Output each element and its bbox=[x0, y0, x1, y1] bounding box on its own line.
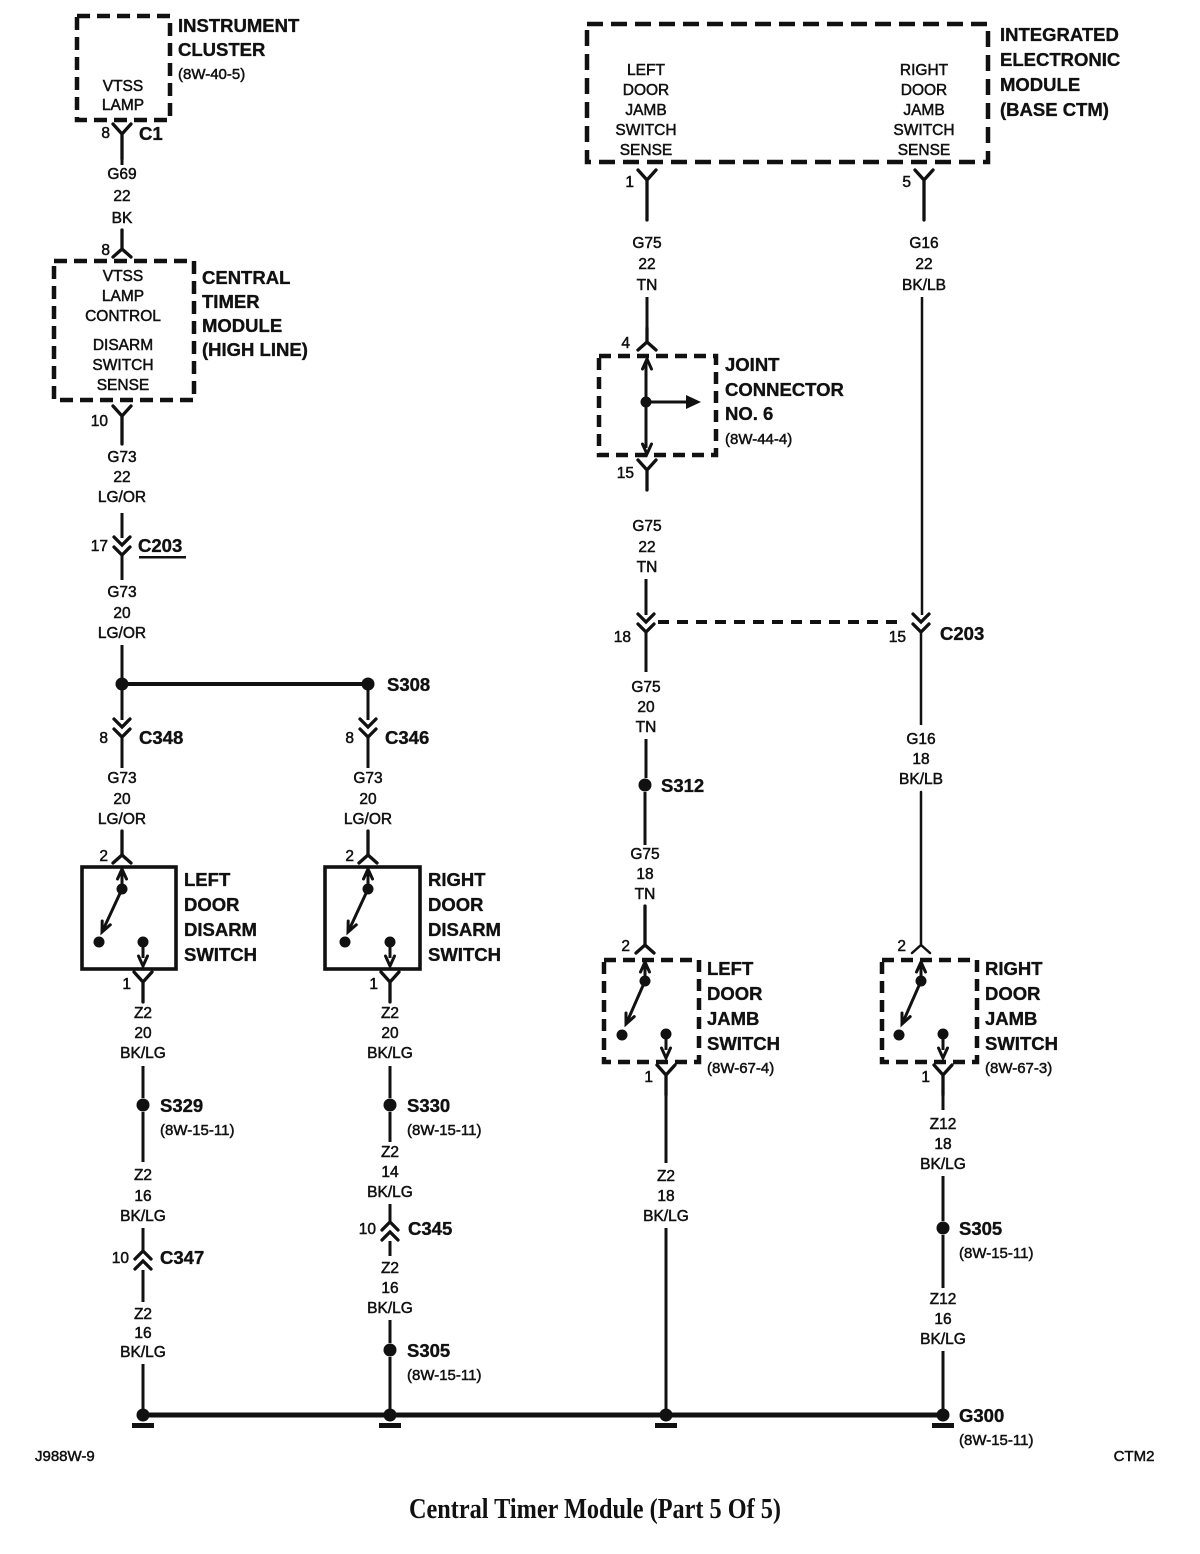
right disarm switch: left contact bbox=[340, 937, 351, 948]
ground junction (left) bbox=[132, 1409, 154, 1429]
pin 17 at C203 bbox=[91, 538, 108, 555]
svg-text:G73: G73 bbox=[353, 770, 382, 787]
wire above C345 bbox=[389, 1204, 392, 1221]
wire above splice junction bbox=[121, 645, 124, 680]
svg-text:22: 22 bbox=[638, 256, 655, 273]
svg-text:RIGHT: RIGHT bbox=[985, 958, 1043, 979]
svg-text:LEFT: LEFT bbox=[184, 869, 231, 890]
label G75 18 TN bbox=[630, 846, 659, 903]
label INSTRUMENT CLUSTER (8W-40-5) bbox=[178, 15, 300, 83]
label LEFT DOOR JAMB SWITCH (8W-67-4) bbox=[707, 958, 780, 1077]
svg-text:SWITCH: SWITCH bbox=[707, 1033, 780, 1054]
dashed link between C203 halves bbox=[658, 620, 902, 624]
label G75 22 TN (upper) bbox=[632, 235, 661, 294]
wire + male half into left disarm switch bbox=[113, 831, 131, 863]
svg-text:SWITCH: SWITCH bbox=[615, 122, 676, 139]
label G75 22 TN (lower) bbox=[632, 518, 661, 576]
label Z2 20 BK/LG (left) bbox=[120, 1005, 166, 1062]
svg-text:BK/LG: BK/LG bbox=[643, 1208, 689, 1225]
pin 1 (left door jamb switch) bbox=[644, 1069, 653, 1086]
ground G300 bbox=[932, 1405, 1033, 1449]
connector at left disarm switch pin 1 bbox=[134, 972, 152, 1002]
instrument cluster box bbox=[77, 16, 170, 120]
left disarm switch: left contact bbox=[94, 937, 105, 948]
wire to ground bus (jamb left) bbox=[665, 1228, 668, 1412]
label Z2 16 BK/LG (left lower) bbox=[120, 1306, 166, 1361]
svg-text:(8W-15-11): (8W-15-11) bbox=[959, 1432, 1033, 1449]
svg-text:G75: G75 bbox=[632, 518, 661, 535]
svg-text:Z2: Z2 bbox=[381, 1005, 399, 1022]
svg-text:20: 20 bbox=[113, 791, 131, 808]
wire below left jamb switch bbox=[665, 1076, 668, 1163]
svg-text:BK/LG: BK/LG bbox=[120, 1344, 166, 1361]
svg-text:Z12: Z12 bbox=[930, 1116, 957, 1133]
svg-text:CONTROL: CONTROL bbox=[85, 308, 161, 325]
svg-text:INSTRUMENT: INSTRUMENT bbox=[178, 15, 300, 36]
svg-text:Z2: Z2 bbox=[134, 1306, 152, 1323]
svg-text:Z2: Z2 bbox=[381, 1144, 399, 1161]
pin 10 at C345 bbox=[359, 1221, 377, 1238]
label LEFT DOOR DISARM SWITCH bbox=[184, 869, 257, 965]
right jamb switch: output contact bbox=[938, 1029, 949, 1040]
wire down to C203 pin 15 bbox=[921, 297, 924, 615]
label Z2 16 BK/LG (left upper) bbox=[120, 1167, 166, 1225]
label Z2 14 BK/LG bbox=[367, 1144, 413, 1201]
svg-text:VTSS: VTSS bbox=[103, 268, 143, 285]
svg-text:INTEGRATED: INTEGRATED bbox=[1000, 24, 1119, 45]
svg-text:DOOR: DOOR bbox=[901, 82, 948, 99]
joint connector: junction dot bbox=[641, 397, 652, 408]
connector at CTM pin 10 bbox=[113, 406, 131, 444]
svg-text:TN: TN bbox=[637, 277, 658, 294]
integrated electronic module box bbox=[587, 24, 988, 162]
connector at right jamb switch pin 1 bbox=[934, 1065, 952, 1095]
svg-text:MODULE: MODULE bbox=[1000, 74, 1080, 95]
wire below S312 bbox=[644, 792, 647, 845]
right disarm switch: output arrow bbox=[386, 942, 395, 966]
left jamb switch: left contact bbox=[617, 1030, 628, 1041]
svg-text:15: 15 bbox=[889, 629, 906, 646]
svg-text:CTM2: CTM2 bbox=[1114, 1448, 1155, 1465]
connector at right disarm switch pin 1 bbox=[381, 972, 399, 1002]
svg-text:S312: S312 bbox=[661, 775, 704, 796]
svg-text:TIMER: TIMER bbox=[202, 291, 260, 312]
svg-text:14: 14 bbox=[381, 1164, 399, 1181]
splice S312 bbox=[639, 775, 705, 796]
wire to S308 bbox=[122, 682, 368, 686]
svg-text:(8W-15-11): (8W-15-11) bbox=[407, 1122, 481, 1139]
left jamb switch: blade bbox=[626, 981, 645, 1024]
pin 8 (instrument cluster) bbox=[101, 125, 110, 142]
label G73 20 LG/OR (left lower) bbox=[98, 770, 146, 828]
svg-text:S329: S329 bbox=[160, 1095, 203, 1116]
wire below S330 bbox=[389, 1112, 392, 1142]
label JOINT CONNECTOR NO. 6 (8W-44-4) bbox=[725, 354, 844, 448]
svg-text:BK/LB: BK/LB bbox=[899, 771, 943, 788]
svg-text:C347: C347 bbox=[160, 1247, 204, 1268]
pin 8 at C348 bbox=[99, 730, 108, 747]
pin 4 at joint connector bbox=[621, 335, 630, 352]
label INTEGRATED ELECTRONIC MODULE (BASE CTM) bbox=[1000, 24, 1120, 120]
svg-text:5: 5 bbox=[902, 174, 911, 191]
svg-text:15: 15 bbox=[617, 465, 634, 482]
pin 8 at C346 bbox=[345, 730, 354, 747]
svg-text:(8W-40-5): (8W-40-5) bbox=[178, 66, 245, 83]
svg-text:20: 20 bbox=[113, 605, 131, 622]
label G73 20 LG/OR (right) bbox=[344, 770, 392, 828]
svg-text:BK: BK bbox=[112, 210, 133, 227]
svg-text:MODULE: MODULE bbox=[202, 315, 282, 336]
svg-text:JAMB: JAMB bbox=[707, 1008, 759, 1029]
svg-text:LEFT: LEFT bbox=[707, 958, 754, 979]
svg-text:JAMB: JAMB bbox=[903, 102, 944, 119]
svg-text:2: 2 bbox=[621, 938, 630, 955]
right jamb switch: output arrow bbox=[939, 1034, 948, 1058]
svg-text:G75: G75 bbox=[632, 235, 661, 252]
wire S308 to C346 bbox=[367, 688, 370, 720]
svg-text:DISARM: DISARM bbox=[428, 919, 501, 940]
svg-text:C348: C348 bbox=[139, 727, 183, 748]
svg-text:SWITCH: SWITCH bbox=[428, 944, 501, 965]
wire below C346 bbox=[367, 737, 370, 768]
pin 5 (IEM right) bbox=[902, 174, 911, 191]
svg-text:18: 18 bbox=[636, 866, 653, 883]
svg-text:DOOR: DOOR bbox=[707, 983, 763, 1004]
wire below C347 bbox=[142, 1270, 145, 1302]
left disarm switch: output arrow bbox=[139, 942, 148, 966]
svg-text:G73: G73 bbox=[107, 449, 136, 466]
svg-text:S305: S305 bbox=[959, 1218, 1002, 1239]
svg-text:LG/OR: LG/OR bbox=[344, 811, 392, 828]
right jamb switch: pivot contact bbox=[916, 976, 927, 987]
svg-text:LEFT: LEFT bbox=[627, 62, 665, 79]
svg-text:BK/LG: BK/LG bbox=[367, 1184, 413, 1201]
svg-text:DISARM: DISARM bbox=[93, 337, 153, 354]
wire above C203 pin 18 bbox=[645, 579, 648, 615]
svg-text:J988W-9: J988W-9 bbox=[35, 1448, 95, 1465]
connector C203 (left) bbox=[114, 535, 186, 559]
svg-text:RIGHT: RIGHT bbox=[900, 62, 949, 79]
svg-text:1: 1 bbox=[644, 1069, 653, 1086]
label RIGHT DOOR JAMB SWITCH SENSE (inside IEM) bbox=[893, 62, 954, 159]
svg-text:(8W-44-4): (8W-44-4) bbox=[725, 431, 792, 448]
label J988W-9 bbox=[35, 1448, 95, 1465]
svg-text:22: 22 bbox=[113, 469, 130, 486]
connector at IEM pin 1 bbox=[638, 170, 656, 220]
svg-text:(8W-15-11): (8W-15-11) bbox=[160, 1122, 234, 1139]
pin 2 (left door disarm switch) bbox=[99, 848, 108, 865]
node junction at S308 branch bbox=[116, 678, 129, 691]
svg-text:DOOR: DOOR bbox=[184, 894, 240, 915]
splice S305 (middle) bbox=[384, 1340, 482, 1384]
svg-text:S330: S330 bbox=[407, 1095, 450, 1116]
connector C347 bbox=[135, 1247, 204, 1269]
wire above S329 bbox=[142, 1066, 145, 1098]
svg-text:(8W-67-4): (8W-67-4) bbox=[707, 1060, 774, 1077]
wire above C203 bbox=[121, 513, 124, 538]
wire to joint connector bbox=[646, 297, 649, 328]
label G73 20 LG/OR (upper) bbox=[98, 584, 146, 642]
pin 15 at C203 (right) bbox=[889, 629, 906, 646]
svg-text:SWITCH: SWITCH bbox=[184, 944, 257, 965]
label G16 18 BK/LB bbox=[899, 731, 943, 788]
svg-text:22: 22 bbox=[638, 539, 655, 556]
pin 2 (right door disarm switch) bbox=[345, 848, 354, 865]
connector at IEM pin 5 bbox=[915, 170, 933, 220]
svg-text:2: 2 bbox=[99, 848, 108, 865]
svg-text:BK/LG: BK/LG bbox=[367, 1300, 413, 1317]
ground junction (jamb left) bbox=[655, 1409, 677, 1429]
wire above S312 bbox=[645, 739, 648, 778]
label G73 22 LG/OR bbox=[98, 449, 146, 506]
svg-text:(BASE CTM): (BASE CTM) bbox=[1000, 99, 1109, 120]
pin 2 (left door jamb switch) bbox=[621, 938, 630, 955]
svg-text:C345: C345 bbox=[408, 1218, 452, 1239]
right jamb switch: input arrow bbox=[917, 962, 926, 979]
connector C345 bbox=[382, 1218, 452, 1240]
svg-text:G73: G73 bbox=[107, 770, 136, 787]
connector C348 bbox=[114, 719, 183, 748]
pin 1 (right door disarm switch) bbox=[369, 976, 378, 993]
pin 15 at joint connector bbox=[617, 465, 634, 482]
right disarm switch: pivot contact bbox=[363, 884, 374, 895]
svg-text:RIGHT: RIGHT bbox=[428, 869, 486, 890]
label RIGHT DOOR JAMB SWITCH (8W-67-3) bbox=[985, 958, 1058, 1077]
pin 10 (central timer module) bbox=[91, 413, 109, 430]
svg-text:SENSE: SENSE bbox=[97, 377, 150, 394]
svg-text:SENSE: SENSE bbox=[898, 142, 951, 159]
connector C203 pin 18 (left chevron) bbox=[638, 614, 654, 632]
svg-text:(8W-15-11): (8W-15-11) bbox=[407, 1367, 481, 1384]
right jamb switch: blade bbox=[902, 981, 921, 1024]
male half into joint connector bbox=[638, 328, 656, 350]
title Central Timer Module (Part 5 Of 5) bbox=[409, 1494, 781, 1525]
label LEFT DOOR JAMB SWITCH SENSE (inside IEM) bbox=[615, 62, 676, 159]
wire junction to C348 bbox=[121, 688, 124, 720]
connector C1 bbox=[113, 123, 163, 159]
svg-text:VTSS: VTSS bbox=[103, 78, 143, 95]
svg-text:BK/LG: BK/LG bbox=[120, 1045, 166, 1062]
svg-text:8: 8 bbox=[345, 730, 354, 747]
right door disarm switch box bbox=[325, 867, 420, 969]
svg-text:G75: G75 bbox=[630, 846, 659, 863]
svg-text:18: 18 bbox=[657, 1188, 674, 1205]
label G75 20 TN bbox=[631, 679, 660, 736]
svg-text:22: 22 bbox=[113, 188, 130, 205]
svg-text:8: 8 bbox=[99, 730, 108, 747]
svg-text:SWITCH: SWITCH bbox=[92, 357, 153, 374]
ground bus wire bbox=[143, 1413, 943, 1418]
svg-text:G73: G73 bbox=[107, 584, 136, 601]
left disarm switch: input arrow bbox=[118, 869, 127, 886]
wire below S305 to ground bus bbox=[389, 1357, 392, 1412]
svg-text:20: 20 bbox=[637, 699, 655, 716]
left disarm switch: blade bbox=[102, 889, 122, 932]
svg-text:Z12: Z12 bbox=[930, 1291, 957, 1308]
svg-text:LG/OR: LG/OR bbox=[98, 811, 146, 828]
svg-text:16: 16 bbox=[134, 1188, 151, 1205]
svg-text:SWITCH: SWITCH bbox=[893, 122, 954, 139]
svg-text:JAMB: JAMB bbox=[985, 1008, 1037, 1029]
left jamb switch: pivot contact bbox=[640, 976, 651, 987]
pin 1 (right door jamb switch) bbox=[921, 1069, 930, 1086]
left jamb switch: output arrow bbox=[662, 1034, 671, 1058]
wire below C203 bbox=[121, 555, 124, 580]
svg-text:DISARM: DISARM bbox=[184, 919, 257, 940]
connector C203 pin 15 (right chevron) bbox=[913, 614, 984, 644]
wire below C203 pin 15 bbox=[920, 632, 923, 725]
svg-text:1: 1 bbox=[625, 174, 634, 191]
wire + male half into left jamb switch bbox=[636, 906, 654, 953]
svg-text:10: 10 bbox=[359, 1221, 377, 1238]
wire below C203 pin 18 bbox=[645, 632, 648, 672]
svg-text:CENTRAL: CENTRAL bbox=[202, 267, 290, 288]
left disarm switch: output contact bbox=[138, 937, 149, 948]
wire into CTM + male connector half bbox=[113, 230, 131, 257]
svg-text:18: 18 bbox=[614, 629, 631, 646]
pin 1 (IEM left) bbox=[625, 174, 634, 191]
svg-text:G69: G69 bbox=[107, 166, 136, 183]
svg-text:LG/OR: LG/OR bbox=[98, 625, 146, 642]
svg-text:18: 18 bbox=[912, 751, 929, 768]
svg-text:G16: G16 bbox=[906, 731, 935, 748]
svg-text:Z2: Z2 bbox=[381, 1260, 399, 1277]
svg-text:TN: TN bbox=[637, 559, 658, 576]
label RIGHT DOOR DISARM SWITCH bbox=[428, 869, 501, 965]
svg-text:(8W-15-11): (8W-15-11) bbox=[959, 1245, 1033, 1262]
svg-text:1: 1 bbox=[122, 976, 131, 993]
svg-text:Z2: Z2 bbox=[134, 1005, 152, 1022]
svg-text:CONNECTOR: CONNECTOR bbox=[725, 379, 844, 400]
label Z2 20 BK/LG (right) bbox=[367, 1005, 413, 1062]
wire G69 segment upper bbox=[121, 158, 124, 165]
label Z12 16 BK/LG bbox=[920, 1291, 966, 1348]
svg-text:G16: G16 bbox=[909, 235, 938, 252]
svg-text:C1: C1 bbox=[139, 123, 163, 144]
svg-text:SENSE: SENSE bbox=[620, 142, 673, 159]
svg-text:17: 17 bbox=[91, 538, 108, 555]
connector at joint connector pin 15 bbox=[638, 460, 656, 490]
svg-text:BK/LG: BK/LG bbox=[120, 1208, 166, 1225]
wire above S305 (middle) bbox=[389, 1320, 392, 1343]
svg-text:8: 8 bbox=[101, 242, 110, 259]
label CTM2 bbox=[1114, 1448, 1155, 1465]
svg-text:JAMB: JAMB bbox=[625, 102, 666, 119]
svg-text:16: 16 bbox=[134, 1325, 151, 1342]
label VTSS LAMP CONTROL / DISARM SWITCH SENSE bbox=[85, 268, 161, 394]
svg-text:S305: S305 bbox=[407, 1340, 450, 1361]
wire below C345 bbox=[389, 1241, 392, 1256]
svg-text:DOOR: DOOR bbox=[985, 983, 1041, 1004]
connector at left jamb switch pin 1 bbox=[657, 1065, 675, 1095]
svg-text:22: 22 bbox=[915, 256, 932, 273]
svg-text:TN: TN bbox=[635, 886, 656, 903]
svg-text:DOOR: DOOR bbox=[428, 894, 484, 915]
svg-text:4: 4 bbox=[621, 335, 630, 352]
left jamb switch: input arrow bbox=[641, 962, 650, 979]
svg-text:10: 10 bbox=[91, 413, 109, 430]
svg-text:16: 16 bbox=[381, 1280, 398, 1297]
wire above C347 bbox=[142, 1228, 145, 1250]
svg-text:LG/OR: LG/OR bbox=[98, 489, 146, 506]
svg-text:1: 1 bbox=[921, 1069, 930, 1086]
svg-text:ELECTRONIC: ELECTRONIC bbox=[1000, 49, 1120, 70]
svg-text:DOOR: DOOR bbox=[623, 82, 670, 99]
joint connector: branch arrow bbox=[646, 395, 701, 409]
svg-text:10: 10 bbox=[112, 1250, 130, 1267]
svg-text:BK/LB: BK/LB bbox=[902, 277, 946, 294]
wire above S305 (right) bbox=[942, 1176, 945, 1221]
splice S305 (right) bbox=[937, 1218, 1034, 1262]
svg-text:G75: G75 bbox=[631, 679, 660, 696]
wire to ground bus (left) bbox=[142, 1364, 145, 1412]
splice S308 bbox=[362, 674, 431, 695]
label Z2 18 BK/LG bbox=[643, 1168, 689, 1225]
left jamb switch: output contact bbox=[661, 1029, 672, 1040]
svg-text:Z2: Z2 bbox=[134, 1167, 152, 1184]
pin 1 (left door disarm switch) bbox=[122, 976, 131, 993]
label Z12 18 BK/LG bbox=[920, 1116, 966, 1173]
svg-text:TN: TN bbox=[636, 719, 657, 736]
svg-text:JOINT: JOINT bbox=[725, 354, 780, 375]
svg-text:Z2: Z2 bbox=[657, 1168, 675, 1185]
svg-text:BK/LG: BK/LG bbox=[920, 1156, 966, 1173]
joint connector: internal wire with arrows bbox=[643, 359, 652, 454]
wire below S329 bbox=[142, 1112, 145, 1162]
label VTSS LAMP (inside instrument cluster) bbox=[102, 78, 144, 114]
ground junction (middle) bbox=[379, 1409, 401, 1429]
wire + male half into right disarm switch bbox=[359, 831, 377, 863]
right jamb switch: left contact bbox=[894, 1030, 905, 1041]
splice S329 bbox=[137, 1095, 235, 1139]
svg-text:1: 1 bbox=[369, 976, 378, 993]
svg-text:G300: G300 bbox=[959, 1405, 1004, 1426]
splice S330 bbox=[384, 1095, 482, 1139]
svg-text:BK/LG: BK/LG bbox=[367, 1045, 413, 1062]
right disarm switch: input arrow bbox=[364, 869, 373, 886]
svg-text:LAMP: LAMP bbox=[102, 288, 144, 305]
wire above S330 bbox=[389, 1066, 392, 1098]
svg-text:2: 2 bbox=[345, 848, 354, 865]
left disarm switch: pivot contact bbox=[117, 884, 128, 895]
joint connector no. 6 box bbox=[599, 356, 716, 455]
svg-text:2: 2 bbox=[897, 938, 906, 955]
label Z2 16 BK/LG (middle) bbox=[367, 1260, 413, 1317]
wire + male half into right jamb switch bbox=[912, 792, 930, 953]
connector C346 bbox=[360, 719, 429, 748]
pin 2 (right door jamb switch) bbox=[897, 938, 906, 955]
svg-text:LAMP: LAMP bbox=[102, 97, 144, 114]
svg-text:(HIGH LINE): (HIGH LINE) bbox=[202, 339, 308, 360]
svg-text:BK/LG: BK/LG bbox=[920, 1331, 966, 1348]
svg-text:C203: C203 bbox=[940, 623, 984, 644]
wire below S305 (right) bbox=[942, 1235, 945, 1288]
svg-text:16: 16 bbox=[934, 1311, 951, 1328]
svg-text:SWITCH: SWITCH bbox=[985, 1033, 1058, 1054]
svg-text:C203: C203 bbox=[138, 535, 182, 556]
svg-text:8: 8 bbox=[101, 125, 110, 142]
svg-text:NO. 6: NO. 6 bbox=[725, 403, 773, 424]
svg-text:20: 20 bbox=[359, 791, 377, 808]
wire below C348 bbox=[121, 737, 124, 768]
wire to ground G300 bbox=[942, 1351, 945, 1412]
svg-text:S308: S308 bbox=[387, 674, 430, 695]
left door disarm switch box bbox=[82, 867, 176, 969]
label G69 22 BK bbox=[107, 166, 136, 227]
svg-text:(8W-67-3): (8W-67-3) bbox=[985, 1060, 1052, 1077]
right door jamb switch box bbox=[882, 960, 977, 1062]
svg-text:20: 20 bbox=[381, 1025, 399, 1042]
